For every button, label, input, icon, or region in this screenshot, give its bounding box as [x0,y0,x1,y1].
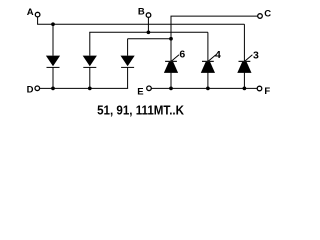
junction dot B bus [147,30,151,34]
diode VD3 [121,56,135,67]
wire A vertical [37,17,39,25]
svg-text:D: D [27,85,34,96]
wire C vertical [170,16,172,61]
gate VS1 [171,55,179,62]
svg-text:A: A [27,7,34,18]
terminal C [258,14,263,19]
wire VD2 cathode [89,67,91,88]
terminal D [35,86,40,91]
svg-text:4: 4 [215,49,221,61]
svg-text:F: F [264,86,270,97]
wire VD3 cathode [127,67,129,88]
wire B vertical [147,17,149,32]
wire B bus [89,31,208,33]
wire VD2 feed [89,32,91,55]
wire VS3 feed [243,24,245,61]
junction dot VD2 / D bus [88,87,92,91]
wire A bus [37,23,244,25]
wire C bus [171,15,259,17]
thyristor VS2 [202,61,214,62]
wire VS2 feed [207,32,209,61]
svg-text:C: C [264,9,271,20]
thyristor VS3 [239,61,251,62]
thyristor VS1 [165,61,177,62]
junction dot VD1 / D bus [51,87,55,91]
terminal F [257,86,262,91]
wire E-F bus [149,87,260,89]
svg-text:E: E [137,86,143,97]
wire VD1 cathode [52,67,54,88]
wire D bus [37,87,128,89]
gate VS3 [245,55,253,62]
svg-text:3: 3 [253,50,259,62]
junction dot C branch [169,37,173,41]
terminal B [146,13,151,18]
wire VD3 feed [127,39,129,56]
junction dot VS3 / E-F bus [243,87,247,91]
junction dot VS1 / E-F bus [169,87,173,91]
svg-text:6: 6 [179,49,185,61]
diode VD1 [46,56,60,67]
wire C branch [128,38,171,40]
diode VD2 [83,56,97,67]
svg-text:B: B [138,7,145,18]
gate VS2 [208,55,216,62]
svg-text:51, 91, 111MT..K: 51, 91, 111MT..K [97,104,184,118]
wire VS3 anode [243,73,245,89]
terminal A [35,12,40,17]
junction dot A bus / VD1 [51,22,55,26]
wire VD1 anode [52,24,54,55]
wire VS2 anode [207,73,209,89]
junction dot VS2 / E-F bus [206,87,210,91]
wire VS1 anode [170,73,172,89]
terminal E [147,86,152,91]
